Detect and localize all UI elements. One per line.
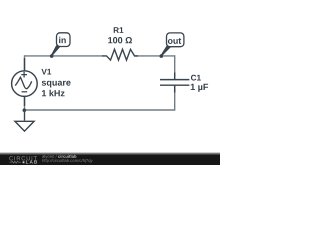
wire top horizontal right of R1	[134, 55, 175, 57]
wire V1 bottom to ground junction	[24, 96, 26, 110]
wire bottom rail	[25, 109, 175, 111]
node in flag	[51, 33, 70, 56]
ground symbol	[15, 110, 34, 131]
watermark user line	[42, 155, 57, 159]
wire left vertical to V1 top	[24, 55, 26, 71]
V1 minus sign	[22, 91, 28, 93]
capacitor C1	[160, 73, 189, 93]
wire right vertical upper to C1	[174, 55, 176, 76]
label V1	[41, 69, 51, 75]
junction dot node in	[50, 54, 54, 58]
value 1 µF	[191, 84, 208, 92]
label R1	[114, 27, 124, 33]
watermark bar	[0, 152, 220, 165]
V1 sine waveform	[15, 77, 32, 88]
watermark url line	[42, 159, 92, 163]
logo LAB	[26, 160, 37, 163]
value 100 Ω	[108, 37, 132, 43]
node out flag	[161, 33, 184, 56]
value 1 kHz	[42, 90, 65, 97]
voltage source V1	[12, 58, 38, 106]
junction dot ground net	[23, 108, 27, 112]
value square	[42, 81, 71, 88]
label C1	[191, 75, 201, 81]
wire right vertical lower from C1	[174, 89, 176, 111]
logo mark	[23, 161, 25, 163]
wire top horizontal net in-out	[25, 55, 104, 57]
V1 plus sign	[21, 72, 27, 78]
resistor R1	[102, 49, 138, 60]
logo CIRCUIT	[9, 156, 37, 160]
junction dot node out	[160, 54, 164, 58]
logo squiggle	[10, 161, 21, 163]
